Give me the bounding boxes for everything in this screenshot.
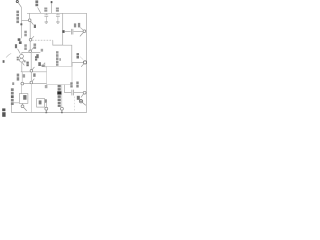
leader curve to stub xyxy=(41,63,44,66)
label 8a 8b above branch xyxy=(74,23,80,28)
switch SW2 arm xyxy=(31,47,34,50)
label right of SW2 wire xyxy=(41,49,43,52)
switch SW1 arm xyxy=(31,21,34,24)
switch SW3 arm vertical xyxy=(30,53,32,69)
wire to box top right xyxy=(63,45,72,66)
node junction dot mid vertical xyxy=(62,30,64,33)
label pair above SW4 wire xyxy=(17,74,20,81)
label text top-right of rail xyxy=(35,56,37,60)
wire horizontal into box left (upper) xyxy=(21,71,47,73)
node terminal bottom-right xyxy=(79,100,86,106)
connector contact K1 on bus xyxy=(45,103,48,113)
switch SW3 arm diag xyxy=(32,67,34,70)
wire right rail xyxy=(86,13,88,112)
label right of Q1 xyxy=(24,60,26,62)
node antenna stub terminal xyxy=(51,1,53,13)
wire mid-left horizontal xyxy=(22,51,41,53)
small box bottom-middle xyxy=(37,99,45,108)
label right of small box xyxy=(45,99,47,103)
label 25 left of rail xyxy=(24,44,27,50)
transistor Q1 circle xyxy=(20,52,24,62)
switch SW5 contact circle xyxy=(83,30,86,33)
label z inside battery box xyxy=(23,95,26,100)
label below box left xyxy=(45,85,48,88)
label 2 near SW1 xyxy=(34,25,36,28)
node junction on left rail xyxy=(20,23,22,25)
wire C3 to switch SW5 xyxy=(74,31,84,33)
label 1 with leader far left xyxy=(3,53,12,62)
switch SW4 contact circle xyxy=(30,81,33,84)
wire jog down xyxy=(53,40,63,45)
battery box xyxy=(19,94,28,104)
wire horizontal into box left (lower) xyxy=(21,83,47,85)
wire branch to C3 xyxy=(65,31,71,33)
ground on left rail xyxy=(18,38,22,44)
label 24 left of rail xyxy=(24,31,27,37)
wire bottom bus xyxy=(11,112,86,114)
wire to switch SW1 xyxy=(22,19,29,21)
label inside small box xyxy=(39,100,42,104)
switch SW8 contact circle xyxy=(83,91,86,94)
node bus tick under K1 xyxy=(45,112,47,113)
wire Q1 down to node xyxy=(21,67,23,72)
label above wire right xyxy=(42,65,45,67)
switch rail continues to bus xyxy=(30,84,32,113)
label below SW3 wire xyxy=(33,73,35,76)
capacitor C2 xyxy=(56,13,60,21)
label left of junction circle xyxy=(12,82,14,85)
connector contact K2 on bus xyxy=(60,107,63,112)
switch SW1 contact circle xyxy=(28,19,31,22)
boundary dashed line flex area xyxy=(74,97,76,113)
leader line from label 202 xyxy=(38,7,41,12)
label 201 vertical text left xyxy=(16,11,19,24)
switch SW1 pole stub from top wire xyxy=(28,13,30,18)
switch SW7 arm xyxy=(81,64,84,67)
switch SW8 arm xyxy=(81,94,84,98)
switch SW3 contact circle xyxy=(30,70,33,73)
node contact circle left xyxy=(21,82,24,85)
switch SW5 arm xyxy=(80,32,84,36)
switch SW2 contact circle xyxy=(29,50,32,53)
capacitor C4 series xyxy=(72,90,74,96)
wire C4 to switch SW8 xyxy=(74,92,83,94)
wire dashed branch from SW rail xyxy=(32,39,53,41)
label vertical text above box xyxy=(56,51,61,66)
label 202 vertical text top-middle xyxy=(35,0,38,6)
wire stub into box top-left xyxy=(45,63,47,67)
label pairs below right of box xyxy=(70,82,78,88)
label vertical text column battery left xyxy=(11,88,14,105)
ground under C2 xyxy=(56,22,59,23)
switch rail vertical xyxy=(29,22,31,51)
node P1 input terminal top-left xyxy=(16,0,21,7)
switch SW4 arm vertical xyxy=(30,72,32,81)
label 22 above C1 xyxy=(44,8,47,12)
node bus tick under K2 xyxy=(61,112,63,113)
ground under C1 xyxy=(45,22,48,23)
label flexible substrate vertical text xyxy=(57,85,61,107)
transistor Q1 marks left xyxy=(17,57,19,61)
switch SW4 arm diag xyxy=(32,79,34,82)
wire box right to switch SW7 xyxy=(72,63,83,67)
switch SW2a contact circle xyxy=(29,39,32,42)
wire box bottom to C4 branch xyxy=(65,85,72,93)
wire battery left down to bus xyxy=(11,103,19,113)
label text pair left of rail xyxy=(26,62,28,67)
transistor Q1 emitter marks xyxy=(22,62,25,67)
switch SW2a arm xyxy=(32,36,35,39)
label z below SW8 xyxy=(77,96,80,100)
wire left rail lower to battery xyxy=(21,72,23,82)
wire top horizontal bus xyxy=(27,12,87,14)
label 5 with leader right mid xyxy=(77,53,84,60)
label 23 above C2 xyxy=(56,8,59,12)
label near stub xyxy=(36,54,41,66)
switch SW6 under battery box xyxy=(21,103,27,111)
wire left rail xyxy=(21,7,23,38)
wire mid vertical from top bus xyxy=(62,13,64,45)
label near SW2 xyxy=(34,44,37,49)
switch SW7 contact circle xyxy=(83,61,86,64)
wire flex vertical text column under box xyxy=(61,85,63,108)
capacitor C1 xyxy=(44,13,48,21)
capacitor C3 series xyxy=(71,29,73,35)
big box controller xyxy=(47,67,72,85)
label figure number bottom-left xyxy=(2,108,5,116)
label 30 with leader to transistor Q1 xyxy=(15,44,20,53)
